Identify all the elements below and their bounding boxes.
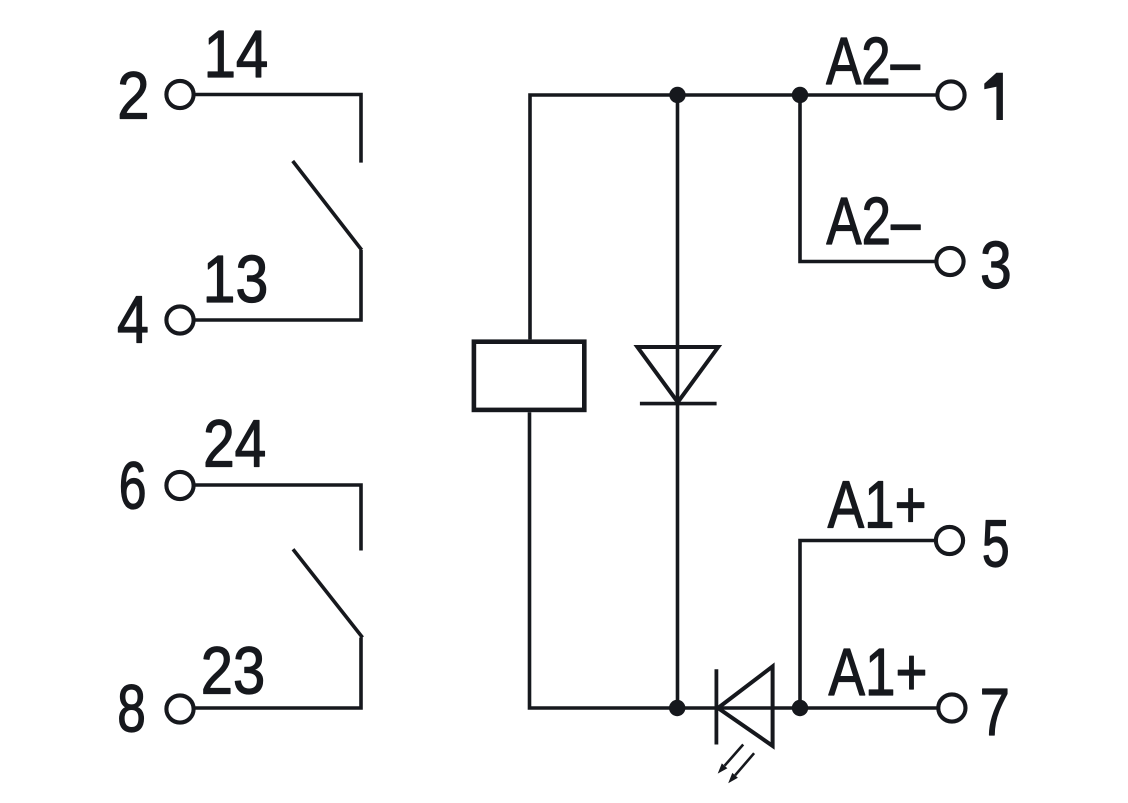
svg-text:A1+: A1+ [829,635,928,709]
svg-text:8: 8 [117,671,146,746]
svg-text:5: 5 [982,507,1010,582]
svg-text:7: 7 [980,675,1010,750]
svg-text:6: 6 [119,448,147,523]
svg-text:A1+: A1+ [828,468,927,542]
svg-text:24: 24 [203,407,266,481]
svg-text:A2–: A2– [826,183,920,258]
svg-text:13: 13 [203,243,269,317]
svg-text:3: 3 [980,228,1012,302]
svg-text:4: 4 [117,283,149,357]
svg-text:23: 23 [201,634,265,709]
svg-text:14: 14 [204,17,269,92]
svg-text:2: 2 [117,59,149,134]
svg-text:A2–: A2– [826,23,920,98]
